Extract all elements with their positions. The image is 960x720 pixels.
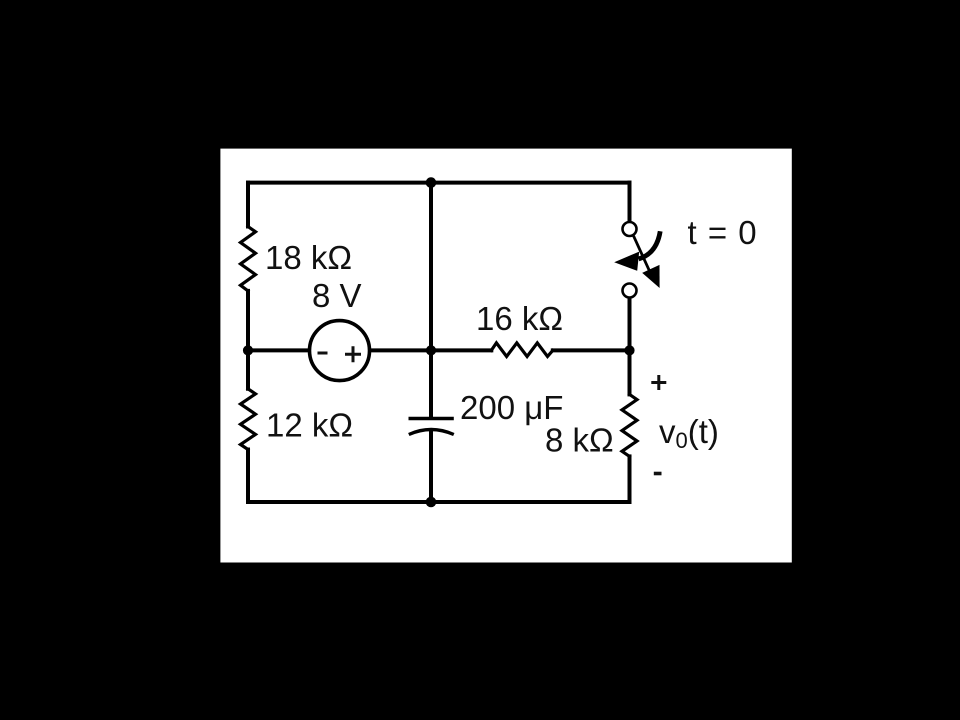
switch SW1 lower contact circle xyxy=(623,284,637,298)
wire right below R4 xyxy=(628,456,632,502)
switch blade line xyxy=(634,236,653,277)
svg-text:200 μF: 200 μF xyxy=(460,389,563,426)
svg-text:8 kΩ: 8 kΩ xyxy=(545,422,614,459)
wire left side middle xyxy=(246,291,250,389)
wire left side lower xyxy=(246,450,250,503)
label output polarity plus xyxy=(651,375,666,390)
junction node mid left xyxy=(243,345,253,355)
resistor R3 16k zigzag xyxy=(491,343,553,357)
wire right side top (to switch) xyxy=(628,183,632,222)
svg-text:16 kΩ: 16 kΩ xyxy=(476,300,563,337)
voltage source minus sign xyxy=(318,352,328,355)
wire middle rail left (to source) xyxy=(248,348,310,352)
svg-text:18 kΩ: 18 kΩ xyxy=(265,239,352,276)
switch motion arc xyxy=(639,231,661,259)
resistor R2 12k zigzag xyxy=(241,389,256,450)
svg-text:12 kΩ: 12 kΩ xyxy=(266,407,353,444)
capacitor C1 top plate xyxy=(409,417,454,420)
wire middle rail node-to-R3 xyxy=(431,348,491,352)
junction node mid middle xyxy=(426,345,436,355)
wire top rail xyxy=(248,181,630,185)
wire bottom rail xyxy=(248,500,630,504)
wire middle rail R3-to-right xyxy=(553,348,630,352)
switch blade arrowhead xyxy=(642,265,659,288)
junction node bottom middle xyxy=(426,497,437,508)
voltage source V1 circle xyxy=(310,321,370,381)
svg-text:8 V: 8 V xyxy=(312,277,362,314)
voltage source plus sign xyxy=(345,346,361,362)
svg-text:v0(t): v0(t) xyxy=(659,413,719,453)
wire left side upper xyxy=(246,183,250,227)
white drawing panel xyxy=(220,149,791,563)
wire right above R4 xyxy=(628,350,632,394)
switch SW1 upper contact circle xyxy=(623,222,637,236)
resistor R1 18k zigzag xyxy=(241,227,256,291)
wire capacitor bottom lead xyxy=(429,431,433,503)
wire middle rail source-to-node xyxy=(369,348,432,352)
switch motion arrowhead xyxy=(614,252,639,271)
wire capacitor top lead xyxy=(429,183,433,417)
capacitor C1 bottom curved plate xyxy=(409,430,454,435)
label output polarity minus xyxy=(654,472,662,476)
junction node top middle xyxy=(426,177,437,188)
resistor R4 8k zigzag xyxy=(622,394,637,456)
wire right side below switch xyxy=(628,298,632,350)
junction node mid right xyxy=(624,345,634,355)
svg-text:t = 0: t = 0 xyxy=(688,214,758,251)
